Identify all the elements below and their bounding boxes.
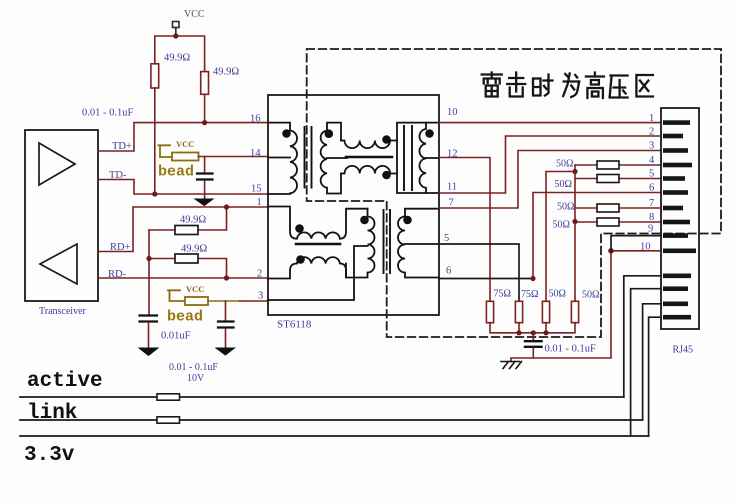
- choke CM1 upper winding: [341, 141, 397, 149]
- wire RJ45 pin9: [611, 236, 661, 251]
- buffer TD (triangle right): [39, 143, 75, 185]
- svg-text:75Ω: 75Ω: [494, 289, 511, 300]
- wire R3/R4 left rail: [148, 230, 150, 315]
- transceiver box: [25, 130, 98, 301]
- svg-text:5: 5: [444, 233, 449, 244]
- wire R2 lead down to TD+ net: [204, 94, 206, 122]
- transformer T1 primary winding (pins 16/14/15): [268, 123, 297, 194]
- capacitor C1 (on pin14 net): [204, 157, 206, 200]
- resistor R2 49.9ohm (right vertical): [201, 72, 209, 95]
- transformer module ST6118 box: [268, 95, 439, 315]
- transformer T3 chip-side winding (center tap pin 3): [268, 209, 375, 300]
- node R4 left junction: [146, 256, 151, 261]
- boundary: lightning high-voltage zone (dashed): [307, 49, 721, 337]
- choke CM1 core: [346, 156, 392, 159]
- choke CM2 lower winding (pin 2): [268, 257, 346, 278]
- svg-text:50Ω: 50Ω: [556, 159, 573, 170]
- node CM2 lower phase dot: [296, 255, 305, 264]
- svg-text:16: 16: [250, 114, 261, 125]
- wire T3 pin7 to RJ45 pin3: [439, 151, 661, 209]
- svg-text:5: 5: [649, 169, 654, 180]
- capacitor C3 (on pin3 net): [225, 301, 227, 348]
- svg-text:1: 1: [649, 113, 654, 124]
- svg-text:2: 2: [649, 127, 654, 138]
- node T1 primary phase dot: [282, 129, 291, 138]
- svg-text:1: 1: [257, 197, 262, 208]
- ferrite bead L1 hook: [159, 145, 173, 157]
- ferrite bead L2 body: [185, 297, 208, 305]
- wire link rail: [20, 419, 643, 421]
- svg-text:0.01 - 0.1uF: 0.01 - 0.1uF: [82, 108, 133, 119]
- wire T2 pin11 to RJ45 pin2: [439, 136, 661, 193]
- svg-text:6: 6: [446, 266, 451, 277]
- wire 3.3v a: [631, 289, 661, 436]
- node common a: [516, 330, 521, 335]
- svg-text:2: 2: [257, 269, 262, 280]
- wire RD+ to pin1 net: [98, 207, 268, 252]
- node R3/pin1 junction: [224, 204, 229, 209]
- node rail junction b: [572, 219, 577, 224]
- ground (arrow, C1): [195, 199, 213, 206]
- wire 3.3v b: [649, 317, 661, 436]
- transformer T3 line-side winding (pins 7/5/6): [398, 209, 439, 278]
- svg-text:bead: bead: [158, 164, 194, 181]
- wire active LED: [624, 276, 661, 397]
- node pin9/10 junction: [608, 248, 614, 254]
- svg-text:link: link: [27, 402, 77, 425]
- svg-text:Transceiver: Transceiver: [39, 306, 87, 317]
- node T2 phase dot: [425, 129, 434, 138]
- wire termination common node: [490, 323, 575, 333]
- wire VCC rail to resistors: [155, 36, 205, 72]
- svg-text:50Ω: 50Ω: [553, 220, 570, 231]
- transformer T1 core: [305, 127, 312, 188]
- svg-text:49.9Ω: 49.9Ω: [181, 244, 207, 255]
- svg-text:bead: bead: [167, 309, 203, 326]
- svg-text:6: 6: [649, 183, 654, 194]
- svg-text:50Ω: 50Ω: [555, 179, 572, 190]
- svg-text:50Ω: 50Ω: [582, 290, 599, 301]
- svg-text:8: 8: [649, 212, 654, 223]
- svg-text:0.01 - 0.1uF: 0.01 - 0.1uF: [545, 344, 596, 355]
- node rail junction a: [572, 169, 577, 174]
- svg-text:VCC: VCC: [176, 139, 194, 149]
- svg-text:7: 7: [649, 198, 654, 209]
- wire R1 lead down to TD- net: [154, 88, 156, 194]
- node pin6 junction: [530, 276, 535, 281]
- resistor R14 (link): [157, 417, 180, 423]
- node common b: [531, 330, 536, 335]
- svg-text:RJ45: RJ45: [673, 345, 694, 356]
- node CM1 lower phase dot: [382, 171, 391, 180]
- wire C4 to chassis ground and RJ45 pins 9/10: [511, 251, 611, 362]
- svg-text:49.9Ω: 49.9Ω: [164, 53, 190, 64]
- svg-text:0.01 - 0.1uF: 0.01 - 0.1uF: [169, 362, 218, 373]
- svg-text:10V: 10V: [187, 373, 205, 384]
- svg-text:15: 15: [251, 184, 262, 195]
- ground (arrow, C2): [139, 348, 158, 356]
- choke CM1 lower winding: [341, 166, 397, 174]
- wire bead1 to pin14: [199, 156, 269, 158]
- node R4/pin2 junction: [224, 275, 229, 280]
- resistor R1 49.9ohm (left vertical): [151, 64, 159, 88]
- node R2/pin16 junction: [202, 120, 207, 125]
- connector RJ45 body: [661, 108, 699, 329]
- node T3 line-side phase dot: [403, 216, 412, 225]
- svg-text:active: active: [27, 370, 103, 393]
- transformer T1 secondary winding: [321, 123, 347, 194]
- wire T3 pin6 to RJ45 pin6: [439, 278, 533, 280]
- ground (arrow, C3): [216, 348, 235, 355]
- wire active rail: [20, 396, 624, 398]
- node VCC junction: [173, 33, 178, 38]
- svg-text:50Ω: 50Ω: [557, 202, 574, 213]
- svg-text:0.01uF: 0.01uF: [161, 331, 191, 342]
- wire RJ45 pin10: [611, 250, 661, 252]
- caption: lightning high voltage zone text: [482, 73, 502, 97]
- choke CM2 core: [296, 243, 340, 246]
- node CM1 upper phase dot: [382, 135, 391, 144]
- wire 3.3v rail: [20, 435, 649, 437]
- capacitor C2 0.01uF: [140, 316, 158, 322]
- svg-text:3.3v: 3.3v: [24, 444, 75, 467]
- node R1/pin15 junction: [152, 191, 157, 196]
- ferrite bead L2 hook: [168, 290, 185, 301]
- svg-text:7: 7: [449, 198, 454, 209]
- svg-text:10: 10: [640, 242, 651, 253]
- transformer T2 line-side winding (pins 10/12/11): [397, 123, 439, 193]
- connector RJ45 contacts: [663, 120, 696, 319]
- svg-text:3: 3: [258, 291, 263, 302]
- ground (chassis, hatched): [501, 362, 522, 369]
- wire termination rail (pins 4,5,7,8): [546, 165, 575, 301]
- wire RD- to pin2 net: [98, 277, 268, 279]
- buffer RD (triangle left): [40, 244, 77, 284]
- wire TD- to pin15 net: [98, 180, 268, 195]
- wire link LED: [643, 304, 661, 420]
- node T1 secondary phase dot: [325, 129, 334, 138]
- svg-text:4: 4: [649, 155, 655, 166]
- wire T2 pin12 to resistor R5: [439, 158, 490, 302]
- wire T2 pin10 to RJ45 pin1: [439, 122, 661, 124]
- svg-text:ST6118: ST6118: [277, 319, 312, 331]
- svg-text:VCC: VCC: [184, 9, 205, 20]
- svg-text:11: 11: [447, 182, 457, 193]
- ferrite bead L1 body: [172, 153, 199, 161]
- svg-text:VCC: VCC: [186, 284, 204, 294]
- choke CM2 upper winding (pin 1): [268, 207, 368, 239]
- resistor R13 (active): [157, 394, 180, 400]
- wire bead2 to pin3: [208, 300, 240, 302]
- wire T3 pin5 to resistor R6: [439, 244, 519, 301]
- transformer T3 core: [384, 210, 391, 273]
- svg-text:3: 3: [649, 141, 654, 152]
- wire TD+ to pin16 net: [98, 123, 268, 151]
- node common c: [543, 330, 548, 335]
- svg-text:75Ω: 75Ω: [521, 289, 538, 300]
- capacitor C4 0.01-0.1uF: [532, 333, 534, 340]
- svg-text:9: 9: [648, 224, 653, 235]
- svg-text:49.9Ω: 49.9Ω: [213, 67, 239, 78]
- svg-text:50Ω: 50Ω: [549, 289, 566, 300]
- power symbol VCC (top): [173, 22, 180, 37]
- node T3 chip-side phase dot: [360, 216, 369, 225]
- svg-text:10: 10: [447, 107, 458, 118]
- svg-text:49.9Ω: 49.9Ω: [180, 215, 206, 226]
- transformer T2 core: [404, 126, 412, 190]
- node CM2 upper phase dot: [295, 224, 304, 233]
- transformer T2 coil: [419, 123, 426, 193]
- svg-text:14: 14: [250, 148, 261, 159]
